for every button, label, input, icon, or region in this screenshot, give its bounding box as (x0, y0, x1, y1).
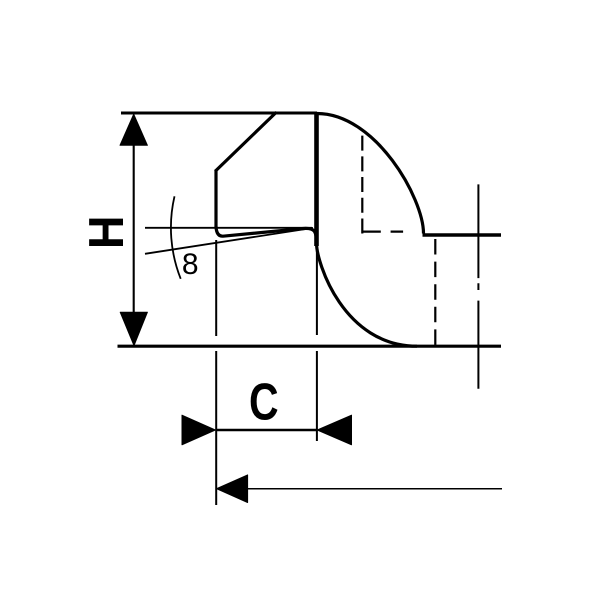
part outline: central vertical edge (314, 113, 319, 246)
angle reference: thin 8-degree sloped line (145, 228, 313, 254)
hidden line: dashed horizontal at bore corner (362, 231, 415, 233)
dimension C: horizontal dimension line (217, 429, 316, 431)
part outline: top-right dome arc (317, 114, 424, 234)
part outline: chamfer (216, 113, 276, 171)
part outline: lower blend arc (317, 243, 418, 346)
part outline: left vertical edge (214, 170, 217, 228)
centerline: vertical axis dash-dot (477, 184, 479, 388)
part outline: bottom-left rounded corner and 8-degree seating face (216, 227, 317, 243)
part outline: bottom base line (118, 345, 502, 348)
dimension D: left arrowhead (217, 475, 248, 503)
dimension C: left arrowhead (182, 415, 215, 445)
angle dimension arc (171, 196, 181, 278)
dimension H: bottom arrowhead (120, 312, 147, 345)
part outline: right shoulder horizontal line (423, 233, 502, 237)
part outline: top face line (121, 112, 317, 115)
svg-text:C: C (249, 373, 279, 431)
extension line: left of C below part (215, 240, 217, 505)
svg-text:H: H (80, 215, 134, 249)
dimension H: vertical dimension line (133, 145, 135, 312)
svg-text:8: 8 (182, 248, 199, 281)
extension line: center of C below part (316, 250, 318, 441)
angle reference: thin horizontal line (145, 227, 312, 229)
dimension H: top arrowhead (120, 114, 147, 145)
dimension D: long horizontal dimension line (247, 488, 502, 490)
hidden line: dashed vertical at bore (361, 136, 363, 234)
hidden line: dashed vertical under shoulder (434, 239, 436, 345)
dimension C: right arrowhead (317, 415, 351, 445)
